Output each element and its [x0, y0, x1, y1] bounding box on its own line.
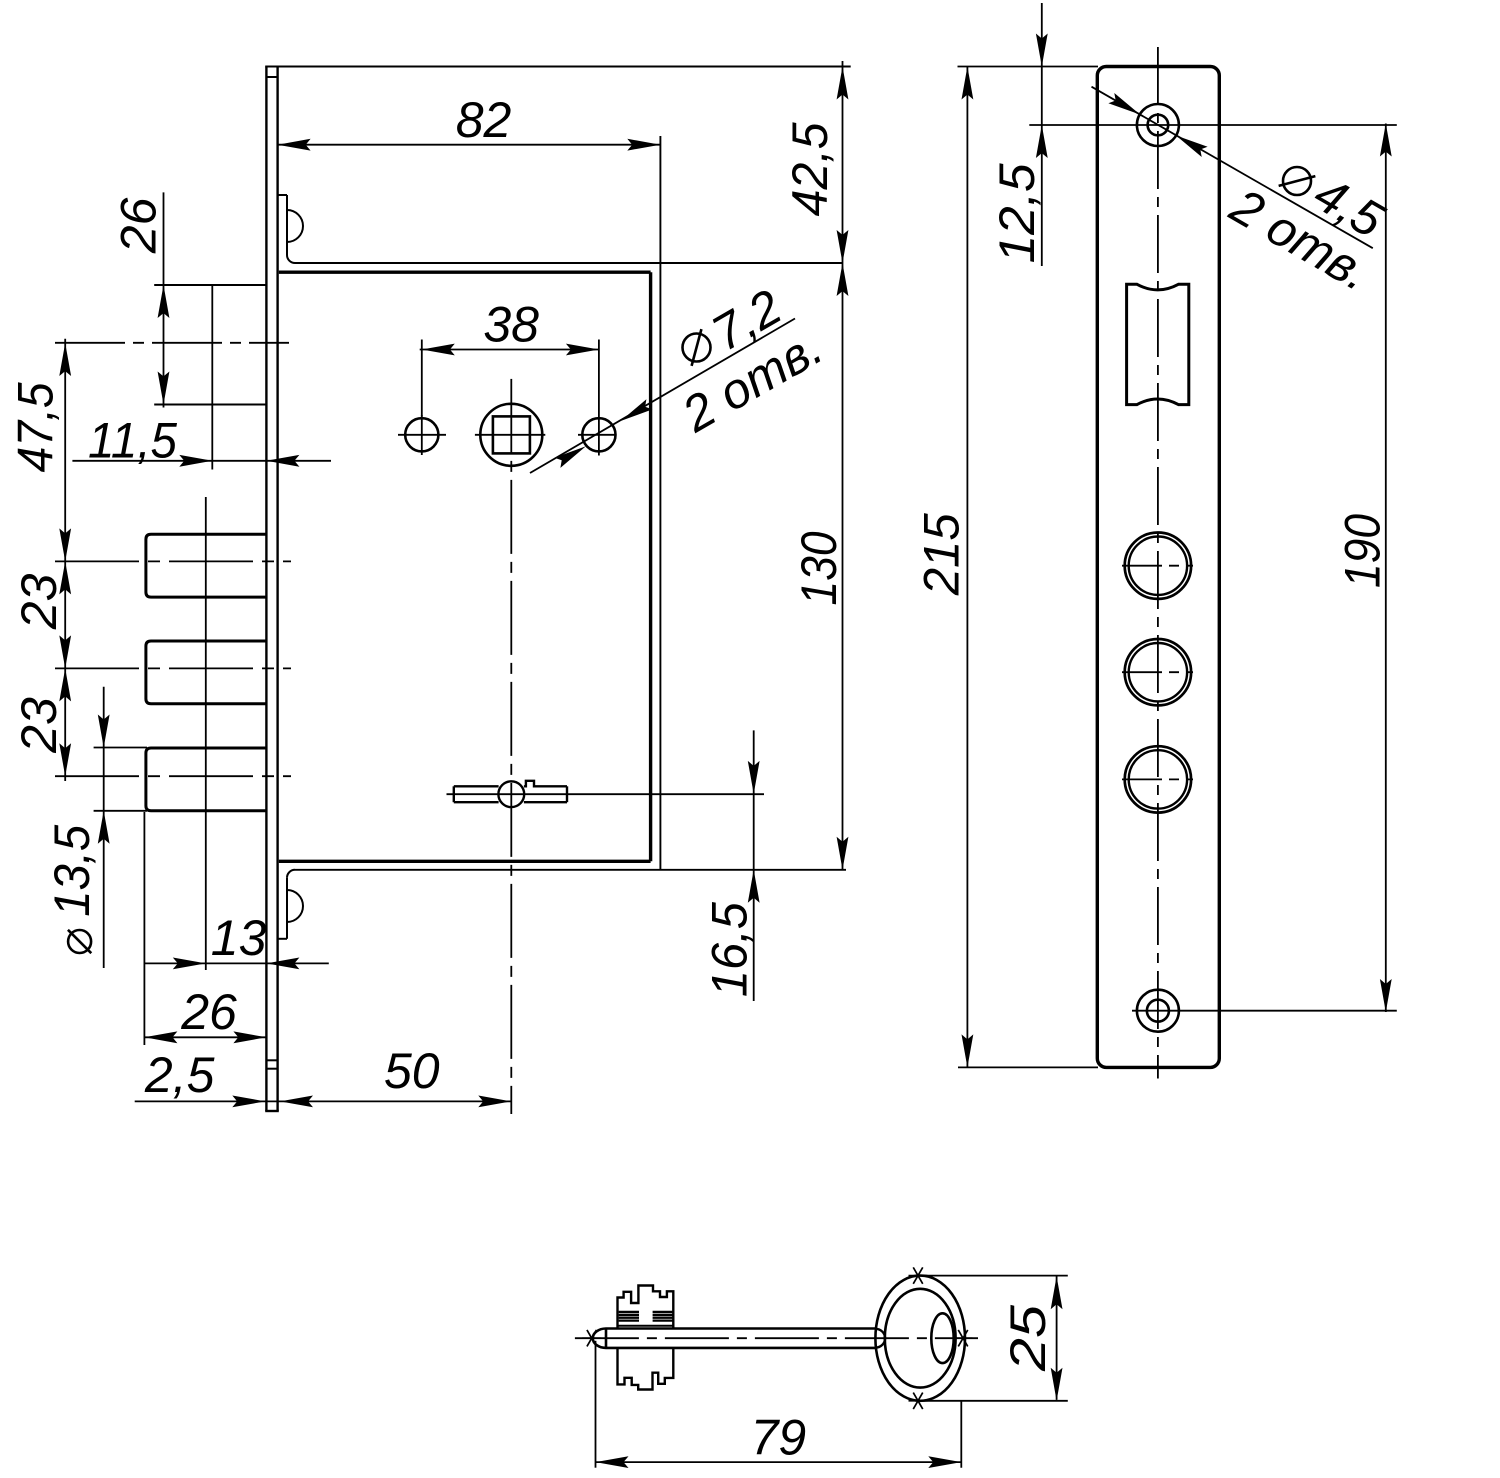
svg-text:23: 23: [11, 697, 67, 754]
svg-text:26: 26: [180, 984, 237, 1040]
svg-text:130: 130: [791, 531, 847, 605]
svg-text:25: 25: [1000, 1305, 1056, 1372]
svg-text:215: 215: [914, 513, 970, 596]
svg-text:12,5: 12,5: [989, 163, 1045, 263]
svg-text:2,5: 2,5: [144, 1047, 215, 1103]
svg-text:190: 190: [1334, 514, 1390, 588]
svg-text:42,5: 42,5: [782, 122, 838, 216]
svg-text:38: 38: [483, 297, 539, 353]
svg-text:82: 82: [456, 92, 512, 148]
svg-text:16,5: 16,5: [702, 902, 758, 997]
svg-text:50: 50: [384, 1043, 440, 1099]
svg-text:13,5: 13,5: [44, 825, 100, 917]
svg-text:23: 23: [11, 573, 67, 630]
svg-text:11,5: 11,5: [88, 413, 177, 469]
svg-text:79: 79: [751, 1410, 807, 1466]
svg-text:13: 13: [211, 910, 267, 966]
svg-text:47,5: 47,5: [8, 382, 64, 472]
svg-text:26: 26: [111, 197, 167, 254]
